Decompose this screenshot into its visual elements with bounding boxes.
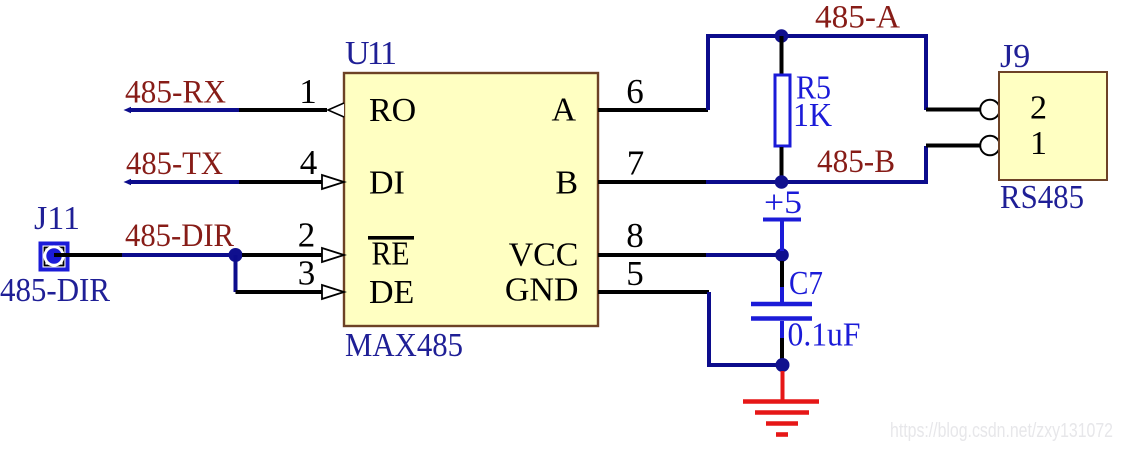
svg-text:VCC: VCC: [509, 237, 579, 274]
svg-text:1K: 1K: [793, 97, 832, 134]
svg-text:B: B: [555, 165, 578, 202]
svg-text:4: 4: [300, 143, 318, 182]
wire pin1 black segment: [239, 108, 327, 112]
svg-text:1: 1: [299, 72, 317, 111]
svg-text:0.1uF: 0.1uF: [788, 317, 861, 354]
svg-text:3: 3: [298, 254, 316, 293]
junction at GND node: [776, 358, 790, 372]
ground symbol: [743, 371, 819, 435]
svg-text:6: 6: [626, 72, 644, 111]
svg-text:MAX485: MAX485: [345, 327, 463, 364]
svg-text:RE: RE: [372, 236, 410, 273]
wire pin8 black segment: [598, 253, 706, 257]
junction at R5 top: [775, 29, 789, 43]
junction at DIR split: [229, 248, 243, 262]
resistor R5: [775, 36, 790, 182]
svg-text:A: A: [551, 92, 576, 129]
wire GND blue segment: [709, 292, 776, 365]
junction at R5 bottom: [775, 175, 789, 189]
wire J9 pin2 black segment: [926, 108, 980, 112]
wire 485-TX blue segment: [124, 179, 132, 185]
svg-text:DE: DE: [369, 274, 414, 311]
svg-text:485-DIR: 485-DIR: [125, 218, 234, 254]
wire pin7 black segment: [598, 180, 706, 184]
wire DIR vertical to DE: [234, 255, 238, 292]
svg-text:485-B: 485-B: [817, 144, 895, 180]
wire pin2 black segment: [242, 253, 322, 257]
connector J11 pad symbol: [41, 244, 68, 270]
svg-text:https://blog.csdn.net/zxy13107: https://blog.csdn.net/zxy131072: [890, 420, 1113, 442]
wire 485-DIR blue segment: [122, 253, 236, 257]
svg-text:+5: +5: [764, 185, 802, 221]
wire pin5 black segment: [598, 290, 709, 294]
svg-text:2: 2: [298, 216, 316, 255]
wire VCC blue segment: [706, 253, 781, 257]
IC U11 body: [344, 73, 598, 326]
svg-text:C7: C7: [789, 265, 823, 302]
svg-text:RO: RO: [369, 92, 416, 129]
wire 485-A net: [708, 36, 926, 110]
wire pin6 black segment: [598, 108, 708, 112]
svg-text:J9: J9: [1000, 38, 1030, 75]
J9 pin1 circle: [980, 136, 1000, 156]
wire J11 black segment: [54, 253, 122, 257]
wire pin4 black segment: [239, 180, 322, 184]
svg-text:RS485: RS485: [1000, 179, 1084, 216]
svg-text:2: 2: [1030, 90, 1047, 127]
svg-text:DI: DI: [369, 165, 405, 202]
svg-text:485-DIR: 485-DIR: [0, 272, 110, 309]
pin 3 input arrow: [322, 285, 344, 299]
pin 4 input arrow: [322, 175, 344, 189]
pin name RE (active low): [368, 236, 414, 273]
svg-text:1: 1: [1030, 125, 1047, 162]
connector J9 body: [999, 72, 1107, 180]
wire J9 pin1 black segment: [926, 144, 980, 148]
svg-text:485-A: 485-A: [815, 0, 900, 36]
wire 485-B net: [706, 146, 926, 182]
wire pin3 black segment: [236, 290, 323, 294]
J9 pin2 circle: [980, 100, 1000, 120]
svg-text:485-TX: 485-TX: [126, 146, 223, 182]
svg-text:8: 8: [626, 216, 644, 255]
power +5 bar symbol: [763, 220, 801, 252]
pin 1 output chevron: [328, 103, 344, 117]
junction at VCC: [775, 248, 789, 262]
wire 485-RX blue segment: [124, 107, 132, 113]
svg-text:7: 7: [627, 144, 645, 183]
svg-text:5: 5: [626, 254, 644, 293]
pin 2 input arrow: [322, 248, 344, 262]
svg-text:485-RX: 485-RX: [125, 75, 226, 111]
svg-text:GND: GND: [505, 272, 579, 309]
svg-text:U11: U11: [345, 35, 397, 72]
svg-text:J11: J11: [34, 200, 80, 237]
capacitor C7: [751, 261, 812, 360]
